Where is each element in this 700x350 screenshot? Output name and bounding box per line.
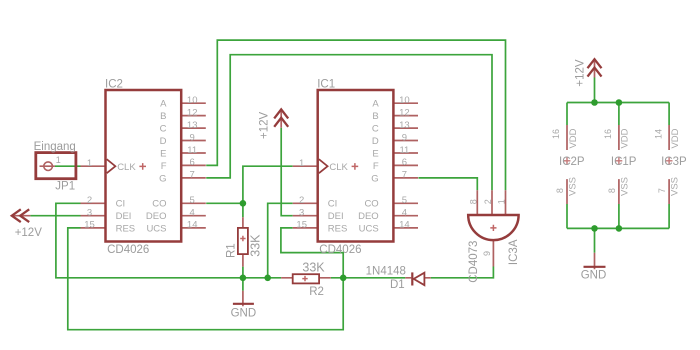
svg-text:14: 14	[399, 220, 410, 231]
svg-text:GND: GND	[581, 269, 607, 281]
svg-text:RES: RES	[328, 223, 348, 234]
svg-text:D: D	[372, 136, 379, 147]
svg-text:Eingang: Eingang	[34, 141, 76, 153]
svg-text:+12V: +12V	[259, 111, 271, 139]
svg-text:8: 8	[468, 199, 478, 204]
svg-text:DEO: DEO	[146, 211, 167, 222]
svg-text:2: 2	[87, 195, 92, 206]
svg-text:G: G	[371, 173, 378, 184]
svg-text:C: C	[372, 124, 379, 135]
svg-text:7: 7	[657, 188, 667, 193]
svg-text:B: B	[372, 111, 378, 122]
svg-text:15: 15	[296, 220, 307, 231]
svg-text:4: 4	[190, 208, 195, 219]
svg-text:VSS: VSS	[619, 177, 630, 196]
svg-text:VDD: VDD	[620, 128, 631, 148]
svg-text:RES: RES	[116, 223, 136, 234]
svg-text:16: 16	[551, 129, 561, 139]
svg-text:VSS: VSS	[568, 177, 579, 196]
svg-text:CD4026: CD4026	[107, 244, 149, 256]
svg-text:CD4073: CD4073	[468, 241, 480, 283]
svg-text:IC3A: IC3A	[508, 239, 520, 265]
svg-text:A: A	[160, 99, 167, 110]
svg-text:VDD: VDD	[670, 128, 681, 148]
svg-text:9: 9	[402, 132, 407, 143]
svg-text:1: 1	[496, 199, 506, 204]
svg-text:G: G	[159, 173, 166, 184]
svg-text:CI: CI	[116, 199, 126, 210]
svg-text:E: E	[372, 148, 378, 159]
svg-text:7: 7	[190, 170, 195, 181]
svg-text:+12V: +12V	[15, 227, 43, 239]
svg-text:33K: 33K	[302, 261, 325, 275]
svg-text:DEO: DEO	[358, 211, 379, 222]
svg-text:6: 6	[190, 157, 195, 168]
svg-text:13: 13	[187, 120, 198, 131]
svg-text:5: 5	[190, 195, 195, 206]
svg-text:9: 9	[482, 251, 492, 256]
svg-text:CO: CO	[152, 199, 166, 210]
svg-text:IC3P: IC3P	[661, 156, 687, 168]
svg-text:14: 14	[653, 129, 663, 139]
svg-text:8: 8	[607, 188, 617, 193]
svg-text:IC1P: IC1P	[611, 156, 637, 168]
svg-text:CLK: CLK	[329, 162, 348, 173]
svg-text:CI: CI	[328, 199, 338, 210]
svg-text:15: 15	[84, 220, 95, 231]
svg-text:CD4026: CD4026	[319, 244, 361, 256]
svg-text:+12V: +12V	[575, 59, 587, 87]
svg-text:10: 10	[399, 95, 410, 106]
svg-text:11: 11	[399, 145, 409, 156]
svg-text:UCS: UCS	[146, 223, 166, 234]
svg-text:2: 2	[299, 195, 304, 206]
svg-text:6: 6	[402, 157, 407, 168]
svg-text:D1: D1	[390, 279, 405, 291]
svg-text:VSS: VSS	[670, 177, 681, 196]
svg-text:GND: GND	[231, 308, 257, 320]
svg-text:R1: R1	[225, 243, 237, 258]
svg-text:1N4148: 1N4148	[366, 265, 406, 277]
svg-text:7: 7	[402, 170, 407, 181]
svg-text:F: F	[161, 161, 167, 172]
svg-text:DEI: DEI	[116, 211, 132, 222]
svg-text:3: 3	[87, 208, 92, 219]
svg-text:8: 8	[555, 188, 565, 193]
svg-text:IC1: IC1	[317, 78, 335, 90]
svg-text:14: 14	[187, 220, 198, 231]
svg-text:VDD: VDD	[568, 128, 579, 148]
svg-text:A: A	[372, 99, 379, 110]
svg-text:C: C	[160, 124, 167, 135]
svg-text:16: 16	[603, 129, 613, 139]
svg-text:13: 13	[399, 120, 410, 131]
svg-text:2: 2	[483, 199, 493, 204]
svg-text:12: 12	[399, 107, 410, 118]
svg-text:12: 12	[187, 107, 198, 118]
svg-text:CO: CO	[364, 199, 378, 210]
svg-text:4: 4	[402, 208, 407, 219]
svg-text:11: 11	[187, 145, 197, 156]
svg-text:DEI: DEI	[328, 211, 344, 222]
svg-text:CLK: CLK	[117, 162, 136, 173]
svg-text:10: 10	[187, 95, 198, 106]
svg-text:33K: 33K	[248, 234, 262, 257]
svg-text:D: D	[160, 136, 167, 147]
svg-text:1: 1	[56, 155, 61, 165]
svg-text:JP1: JP1	[55, 180, 75, 192]
svg-text:R2: R2	[309, 286, 324, 298]
svg-text:1: 1	[87, 158, 92, 169]
svg-text:IC2P: IC2P	[559, 156, 585, 168]
svg-text:UCS: UCS	[359, 223, 379, 234]
svg-text:1: 1	[299, 158, 304, 169]
svg-text:5: 5	[402, 195, 407, 206]
svg-text:E: E	[160, 148, 166, 159]
svg-text:IC2: IC2	[105, 78, 123, 90]
svg-text:3: 3	[299, 208, 304, 219]
svg-text:9: 9	[190, 132, 195, 143]
svg-text:B: B	[160, 111, 166, 122]
svg-text:F: F	[373, 161, 379, 172]
